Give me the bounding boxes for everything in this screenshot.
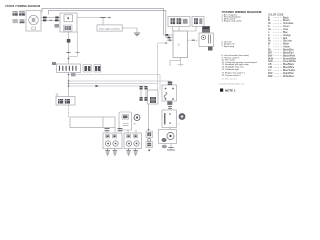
svg-text:White: White [283,43,290,46]
svg-text:O: O [268,35,270,37]
svg-text:White/Red: White/Red [283,75,294,78]
legend items group 3 [222,54,258,71]
tail lamp bulb [167,132,174,139]
rectifier connector block [64,25,73,31]
A.C. magneto U1 box [26,11,41,32]
main harness vertical [68,73,70,97]
starter relay box [162,85,177,101]
stub wire with node [158,42,169,44]
ground hatch 2 [113,149,118,156]
svg-text:Black/Red: Black/Red [283,53,294,55]
taillight relay box [162,110,177,128]
branch wire mid [69,83,158,85]
headlight L bulbs [105,141,110,146]
svg-text:Red: Red [283,38,288,40]
wire fan cluster down to lamp chain [148,104,150,131]
headlight R bulbs [126,141,131,146]
svg-text:17. Wire harness: 17. Wire harness [222,77,238,80]
inline fuse box on branch [71,73,76,77]
svg-text:Brown/White: Brown/White [283,57,297,60]
legend items group 2 [222,40,236,48]
wire main switch down [68,105,70,117]
svg-text:Red/White: Red/White [283,72,294,75]
divider [102,117,104,128]
wire CDI down to relay [170,58,181,67]
junction ticks [67,52,71,54]
ignition coil box [199,33,214,47]
rectifier/regulator U2 outer box [60,13,77,32]
svg-text:W/R: W/R [268,76,273,78]
tail/brake light box [159,130,177,144]
svg-text:Sky blue: Sky blue [283,41,293,43]
svg-text:7. Spark plug: 7. Spark plug [222,46,235,48]
connector bullets upper wire [43,17,47,19]
svg-text:NOTE 1: NOTE 1 [225,89,236,93]
wire CDI to coil dashed [188,39,200,41]
svg-text:Brown: Brown [283,19,290,22]
connector block C [13,19,18,23]
tail connector box lower [146,142,153,148]
CDI unit tall box [173,31,188,58]
ground hatch 1 [105,149,110,156]
spark plug [208,47,213,51]
magneto rotor circle [29,15,39,25]
CDI connector box 1 [168,17,190,27]
connector above relay [168,82,172,86]
svg-text:Br/W: Br/W [268,57,274,60]
wire relay to next box [169,105,171,110]
connector on wire [67,39,71,43]
connector ticks below handlebar box [105,129,123,131]
wire to tail lamp box [169,128,171,130]
rectifier inner box [64,15,73,22]
connector below-left of rectifier [55,24,60,28]
harness verticals to fan cluster [157,43,159,90]
svg-text:Blue/White: Blue/White [283,66,295,69]
ground [134,33,140,36]
connector pins [60,66,77,71]
handlebar switch long box [70,117,115,128]
wire rectifier output right [77,17,111,19]
svg-text:16. Thermo switch 2: 16. Thermo switch 2 [222,74,242,77]
svg-text:Br: Br [268,19,271,22]
svg-text:4. Engine stop switch: 4. Engine stop switch [222,20,243,23]
svg-text:Blue/Yellow: Blue/Yellow [283,70,295,72]
color code entries [268,17,297,78]
connector below tail box [162,145,167,149]
note marker [220,89,223,92]
indicator circle [134,115,140,121]
wire rectifier down [68,32,70,64]
ignition coil body [202,26,210,33]
multi-pin connector row box [57,64,81,73]
svg-text:YFZ450 V WIRING DIAGRAM: YFZ450 V WIRING DIAGRAM [5,4,40,8]
svg-text:(c) 2005 Yamaha Motor Co.: (c) 2005 Yamaha Motor Co. [219,82,245,85]
ground hatch 3 [126,149,131,156]
svg-text:G: G [268,26,270,28]
connector pair A [83,65,92,73]
svg-text:L/B: L/B [268,64,272,66]
wire rectifier second drop [77,32,79,57]
fan motor branch: connector blobs [140,86,142,97]
svg-text:Black: Black [283,17,289,19]
svg-text:COLOR CODE: COLOR CODE [268,14,284,16]
svg-text:Chocolate: Chocolate [283,22,294,25]
CDI connector box 2 [192,17,204,27]
main switch box [56,97,75,106]
svg-text:Orange: Orange [283,34,291,37]
svg-text:Blue/Black: Blue/Black [283,64,295,66]
svg-text:B/R: B/R [268,53,272,55]
arrow end of wire [109,17,112,19]
small circle node [148,138,151,141]
connector below relay [167,102,172,105]
wire magneto to rectifier lower [41,19,60,21]
connector hatch whitening [13,11,199,145]
wires connectors down [172,26,174,31]
svg-text:Black/Blue: Black/Blue [283,50,295,52]
svg-text:15. Engine stop switch 1: 15. Engine stop switch 1 [222,71,246,74]
headlight R box [124,133,142,149]
svg-text:Black/White: Black/White [283,54,296,57]
svg-text:Gray: Gray [283,28,289,31]
top bus wire lower [49,10,166,37]
tail connector box upper [146,131,153,138]
wires into headlight R [127,130,129,133]
svg-text:Green: Green [283,25,290,28]
thermo switch box [148,90,159,104]
lean angle cut-off switch box [97,25,122,31]
branch wire with arrow [69,85,147,87]
arrow on branch [96,85,99,87]
ground hatch 4 [133,149,138,156]
branch wire to relay chain [69,81,171,85]
icon next to box [179,113,186,120]
wire lean angle to ground [122,28,137,33]
connector block D [20,19,25,23]
svg-text:Yellow: Yellow [283,47,290,49]
connector block B [19,11,25,16]
legend items group 4 [222,71,246,77]
wires into CDI from left [164,34,173,36]
svg-text:Lean angle cut-off sw.: Lean angle cut-off sw. [99,27,121,30]
svg-text:Green/White: Green/White [283,60,297,63]
branch wire upper [69,74,161,76]
lamp socket component [162,138,167,142]
small connector left of row [52,62,56,65]
connector block A [13,11,18,16]
headlight L box [103,133,122,149]
wire tail down [170,144,172,151]
svg-text:L/Y: L/Y [268,70,272,72]
connector pair B [94,65,101,73]
wire down to lean angle switch [102,18,104,25]
legend items group 1 [222,13,243,22]
top bus wire upper [42,9,164,36]
junction node lean-angle tap [101,17,106,19]
svg-text:14. Tail/brake light: 14. Tail/brake light [222,68,240,71]
wire magneto to rectifier upper [41,16,60,18]
connector bullets lower wire [43,19,46,21]
dimmer switch box [119,112,132,130]
wires into headlight L [106,128,108,134]
magneto pickup marks [32,27,36,30]
svg-text:Blue: Blue [283,32,288,34]
